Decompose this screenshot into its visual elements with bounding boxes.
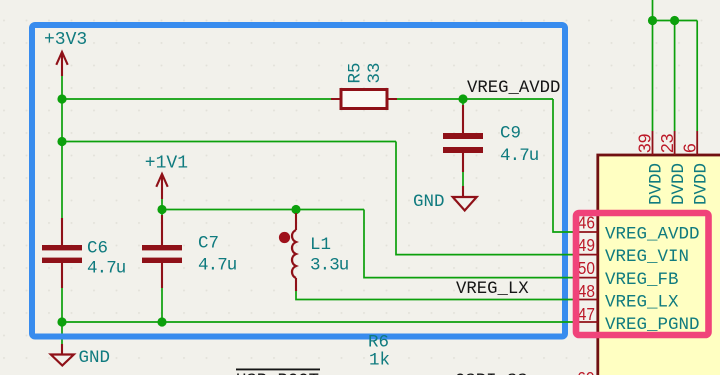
wire C9 green segments [462, 99, 464, 186]
pin 49 stub [573, 254, 599, 256]
wire +1V1 stub [161, 199, 163, 210]
wire left vertical bus [61, 76, 63, 322]
ground GND under C9 [453, 186, 477, 211]
svg-text:4.7u: 4.7u [198, 256, 237, 276]
wire top-right DVDD verticals [653, 0, 698, 131]
wire L1 bottom to pin 48 VREG_LX [296, 291, 573, 300]
svg-text:4.7u: 4.7u [500, 146, 539, 166]
wire +1V1 rail [162, 209, 364, 211]
svg-text:+3V3: +3V3 [44, 30, 87, 50]
svg-text:6: 6 [680, 143, 700, 153]
pin 46 stub [573, 231, 599, 233]
svg-text:49: 49 [578, 235, 595, 255]
svg-text:3.3u: 3.3u [310, 256, 349, 276]
pin name DVDD (23) [669, 163, 689, 205]
ground GND bottom left [51, 344, 74, 366]
pin 50 stub [573, 277, 599, 279]
junction node rail2 [57, 137, 66, 146]
resistor R5 [331, 90, 397, 109]
svg-text:VREG_LX: VREG_LX [456, 280, 529, 299]
power symbol +3V3 [56, 52, 67, 76]
svg-text:60: 60 [577, 368, 594, 375]
svg-text:C6: C6 [87, 239, 108, 259]
capacitor C9 [443, 105, 483, 172]
capacitor C7 [142, 215, 182, 288]
svg-text:1k: 1k [369, 351, 390, 371]
wire GND stub bottom left [61, 322, 63, 344]
pin 23 stub [674, 131, 676, 155]
junction node DVDD 23 [670, 16, 679, 25]
svg-text:47: 47 [578, 304, 595, 324]
polarity dot L1 [279, 232, 290, 243]
wire VREG_AVDD down to pin 46 [553, 99, 573, 232]
svg-text:GND: GND [79, 348, 111, 368]
junction node C7 bottom [157, 317, 166, 326]
svg-text:33: 33 [365, 62, 385, 83]
svg-text:VREG_LX: VREG_LX [605, 293, 679, 313]
pin name DVDD (39) [647, 163, 667, 205]
svg-text:VREG_AVDD: VREG_AVDD [467, 79, 560, 98]
junction node L1 top [291, 205, 300, 214]
pin name DVDD (6) [692, 163, 712, 205]
svg-text:R6: R6 [368, 333, 389, 353]
svg-text:39: 39 [635, 134, 655, 153]
svg-text:50: 50 [578, 258, 595, 278]
pin 39 stub [652, 131, 654, 155]
capacitor C6 [42, 218, 82, 288]
power symbol +1V1 [156, 174, 167, 199]
junction node VREG_AVDD/C9 [458, 94, 467, 103]
svg-text:GND: GND [413, 192, 445, 212]
wire down to pin 50 VREG_FB [364, 210, 573, 278]
annotation blue box [32, 25, 565, 337]
junction node DVDD 39 [648, 16, 657, 25]
svg-text:23: 23 [657, 134, 677, 153]
inductor L1 [292, 213, 296, 291]
value 33 [365, 62, 385, 83]
svg-text:R5: R5 [346, 62, 366, 83]
svg-text:C7: C7 [198, 234, 219, 254]
wire bottom ground rail to pin 47 [62, 321, 573, 323]
junction node +3V3/R5 [57, 94, 66, 103]
svg-text:DVDD: DVDD [692, 163, 712, 205]
junction node C6 bottom [57, 317, 66, 326]
svg-text:VREG_VIN: VREG_VIN [605, 247, 689, 267]
pin 48 stub [573, 299, 599, 301]
svg-text:C9: C9 [500, 124, 521, 144]
svg-text:DVDD: DVDD [669, 163, 689, 205]
pin 47 stub [573, 321, 599, 323]
wire +3V3 rail to R5 and VREG_AVDD [62, 98, 553, 100]
label R5 [346, 62, 366, 83]
wire C7 leads green [161, 210, 163, 323]
svg-text:VREG_AVDD: VREG_AVDD [605, 225, 700, 245]
svg-text:48: 48 [578, 281, 595, 301]
pin number 6 [680, 143, 700, 153]
pin number 39 [635, 134, 655, 153]
junction node +1V1/C7 [157, 205, 166, 214]
pin number 23 [657, 134, 677, 153]
wire down to pin 49 VREG_VIN [396, 142, 573, 255]
IC body (RP2040) [598, 155, 720, 375]
svg-text:+1V1: +1V1 [145, 154, 188, 174]
pin 6 stub [696, 131, 698, 155]
wire +3V3 second rail [62, 141, 396, 143]
svg-text:VREG_FB: VREG_FB [605, 270, 679, 290]
svg-text:DVDD: DVDD [647, 163, 667, 205]
svg-text:L1: L1 [310, 235, 331, 255]
svg-text:4.7u: 4.7u [87, 259, 126, 279]
net label USB_BOOT (overline) [236, 368, 320, 370]
annotation pink box [576, 213, 709, 335]
